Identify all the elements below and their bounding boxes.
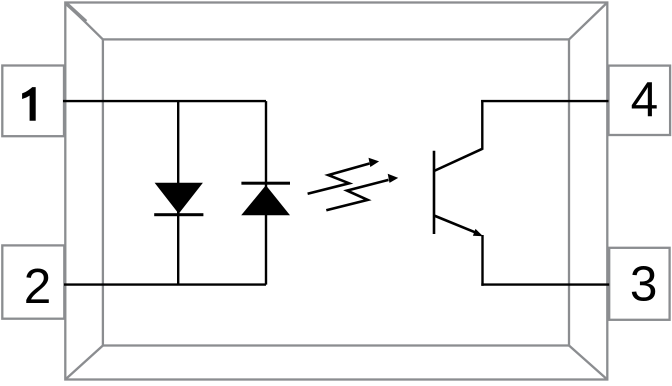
wire LED right branch (265, 101, 267, 285)
LED D1 cathode bar (154, 213, 203, 216)
package outline inner rectangle (103, 39, 569, 345)
wire emitter to pin 3 (481, 283, 609, 285)
svg-text:2: 2 (24, 259, 52, 314)
pin 4 box (609, 66, 671, 135)
LED D1 triangle (anode top, pointing down) (155, 183, 203, 214)
wire collector to pin 4 (481, 100, 608, 102)
transistor Q1 emitter arrowhead (473, 229, 483, 236)
transistor Q1 emitter diagonal (434, 216, 476, 233)
light arrow 1 (308, 158, 380, 194)
wire LED left branch (177, 101, 179, 285)
light arrow 2 (326, 174, 398, 211)
pin 1 label (digit drawn as path, Arial-style 1 without foot) (22, 87, 36, 121)
transistor Q1 base bar (433, 151, 436, 234)
wire pin1 to LED top rail (63, 100, 266, 102)
package bevel top-right (569, 3, 607, 40)
package bevel bottom-right (569, 346, 607, 380)
LED D2 cathode bar (241, 182, 290, 185)
package bevel top-left thick overlay (66, 4, 86, 22)
transistor Q1 collector diagonal (434, 149, 482, 171)
LED D2 triangle (anode bottom, pointing up) (241, 185, 290, 215)
transistor Q1 collector lead (481, 100, 483, 150)
package bevel top-left (65, 3, 103, 40)
svg-text:4: 4 (631, 72, 659, 127)
transistor Q1 emitter lead (481, 235, 483, 286)
svg-text:3: 3 (630, 257, 658, 312)
package outline outer rectangle (65, 3, 607, 380)
pin 2 box (2, 245, 64, 318)
package bevel bottom-left (65, 346, 103, 380)
wire pin2 to LED bottom rail (64, 283, 266, 285)
pin 1 box (2, 66, 64, 137)
pin 3 box (609, 248, 669, 320)
